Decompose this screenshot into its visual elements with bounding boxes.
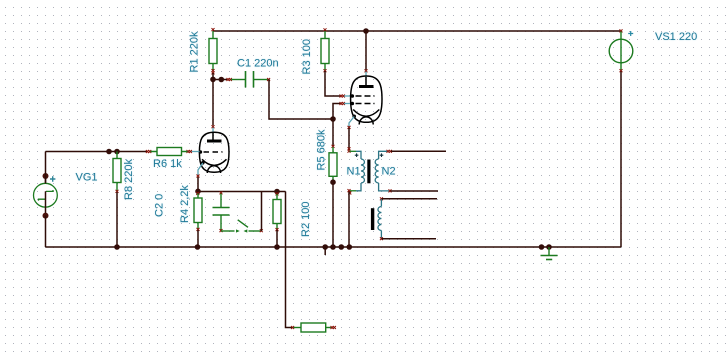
svg-text:N1: N1 <box>347 166 361 178</box>
label R2 100 <box>300 202 312 237</box>
label N2 <box>382 166 396 178</box>
resistor R8 <box>113 152 121 193</box>
wire C1 to grid node <box>269 80 333 120</box>
wire node to tube2 grid2 <box>333 102 351 120</box>
wire top rail to tube2 plate <box>365 31 367 70</box>
wire tube1 cathode down <box>197 177 199 192</box>
wire N3 top output <box>382 198 437 200</box>
wire R5 to rail <box>332 181 334 247</box>
resistor R3 <box>321 28 329 72</box>
label R5 680k <box>316 129 328 170</box>
wire N2 bottom output <box>391 190 439 192</box>
tube V2 <box>348 69 383 129</box>
ground <box>541 247 558 260</box>
capacitor C2 <box>213 191 230 232</box>
label C1 220n <box>237 58 279 70</box>
tube V1 <box>187 125 230 177</box>
junction dots input row <box>106 149 120 155</box>
resistor R1 <box>209 28 217 74</box>
svg-text:C2 0: C2 0 <box>154 194 166 217</box>
transformer winding N2 <box>375 150 392 193</box>
transformer core lower <box>371 208 374 230</box>
resistor R7 bottom <box>291 323 336 332</box>
wire VG1 loop top <box>45 152 47 184</box>
transformer core <box>367 160 370 184</box>
node A junction top rail to tube2 plate <box>363 28 369 34</box>
svg-text:VG1: VG1 <box>76 172 98 184</box>
wire R4 to rail <box>197 230 199 247</box>
resistor R4 <box>194 192 202 231</box>
wire top rail node <box>213 30 620 32</box>
label VS1 220 <box>655 31 697 43</box>
wire R1 to tube1 plate <box>212 73 214 126</box>
junction dot below R5 <box>330 179 336 185</box>
junction dots bottom rail <box>114 244 552 250</box>
label R3 100 <box>301 39 313 74</box>
svg-text:R4 2,2k: R4 2,2k <box>179 185 191 223</box>
label R4 2,2k <box>179 185 191 223</box>
wire switch to R2 node <box>261 192 263 232</box>
wire stub to C1 <box>213 79 227 81</box>
svg-text:R6 1k: R6 1k <box>153 158 182 170</box>
svg-text:R2 100: R2 100 <box>300 202 312 237</box>
junction node grid2/R5 <box>330 116 336 122</box>
junction dots at R1 bottom node <box>210 77 224 83</box>
svg-text:C1 220n: C1 220n <box>237 58 279 70</box>
svg-text:R5 680k: R5 680k <box>316 129 328 170</box>
wire tube2 cathode to N1 <box>348 128 350 150</box>
resistor R5 <box>329 145 337 181</box>
wire input row <box>46 151 148 153</box>
svg-text:VS1 220: VS1 220 <box>655 31 697 43</box>
svg-text:R1 220k: R1 220k <box>189 31 201 72</box>
source VS1 <box>609 29 633 72</box>
wire R2 to rail <box>276 230 278 247</box>
source VG1 <box>34 173 58 219</box>
wire grid node to R5 <box>332 120 334 146</box>
transformer TR1 winding N1 <box>348 147 365 194</box>
svg-text:R3 100: R3 100 <box>301 39 313 74</box>
wire R3 to tube2 grid1 <box>325 71 351 98</box>
wire N2 top output <box>391 150 446 152</box>
wire R8 to rail <box>116 192 118 247</box>
capacitor C1 <box>227 71 271 88</box>
wire cathode row <box>198 191 286 193</box>
label R8 220k <box>123 159 135 200</box>
wire bottom rail <box>46 246 622 248</box>
transformer winding N3 lower <box>378 197 383 240</box>
switch S1 <box>221 220 263 233</box>
svg-text:N2: N2 <box>382 166 396 178</box>
label VG1 <box>76 172 98 184</box>
wire N1 bottom to rail <box>348 192 350 248</box>
wire VG1 to bottom rail <box>45 216 47 248</box>
label R1 220k <box>189 31 201 72</box>
svg-text:R8 220k: R8 220k <box>123 159 135 200</box>
wire stub below rail <box>324 247 326 255</box>
resistor R6 <box>146 148 188 156</box>
label R6 1k <box>153 158 182 170</box>
wire VS1 to rail <box>620 72 622 248</box>
resistor R2 <box>273 192 281 231</box>
label N1 <box>347 166 361 178</box>
junction dots cathode row <box>195 189 280 195</box>
wire cathode node to bottom resistor <box>286 192 293 328</box>
label C2 0 <box>154 194 166 217</box>
wire N3 bottom output <box>382 238 436 240</box>
